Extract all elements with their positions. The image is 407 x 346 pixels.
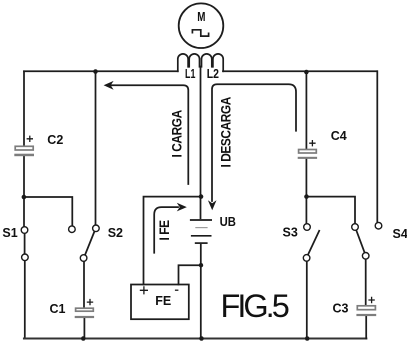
svg-text:FIG.5: FIG.5 xyxy=(221,288,289,324)
svg-text:L2: L2 xyxy=(207,67,219,81)
svg-text:I DESCARGA: I DESCARGA xyxy=(218,96,234,167)
svg-text:C4: C4 xyxy=(331,129,347,143)
svg-text:S4: S4 xyxy=(393,227,407,241)
svg-text:FE: FE xyxy=(155,294,171,308)
svg-text:M: M xyxy=(197,10,205,24)
svg-text:S2: S2 xyxy=(108,226,123,240)
svg-text:C1: C1 xyxy=(50,302,66,316)
svg-text:I CARGA: I CARGA xyxy=(169,109,185,157)
svg-text:UB: UB xyxy=(220,215,236,229)
svg-text:S3: S3 xyxy=(283,226,298,240)
svg-text:I FE: I FE xyxy=(156,220,172,241)
svg-text:L1: L1 xyxy=(185,67,195,81)
svg-text:C2: C2 xyxy=(47,133,63,147)
svg-text:S1: S1 xyxy=(2,226,17,240)
svg-text:C3: C3 xyxy=(333,301,349,315)
